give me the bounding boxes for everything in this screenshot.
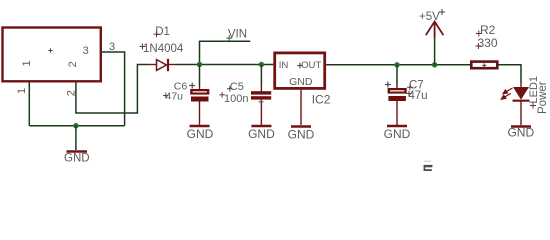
- wire pin1: [28, 81, 30, 125]
- svg-text:47u: 47u: [408, 90, 427, 102]
- junction VIN/C6: [197, 62, 202, 67]
- wire OUT to R2: [326, 64, 470, 66]
- wire to C7: [396, 65, 398, 85]
- ground symbol (connector): [67, 150, 88, 152]
- svg-text:3: 3: [83, 45, 89, 57]
- wire junction to gnd symbol: [75, 126, 77, 150]
- ground symbol (C5): [251, 125, 271, 127]
- svg-text:D1: D1: [155, 26, 170, 38]
- ground symbol (IC2): [291, 125, 311, 127]
- wire to C6: [199, 65, 201, 86]
- svg-text:GND: GND: [384, 127, 411, 141]
- wire GND bus H2: [29, 125, 124, 127]
- LED1: [513, 83, 530, 125]
- C7 polarity plus: [385, 82, 391, 88]
- svg-text:IN: IN: [279, 60, 289, 71]
- junction at GND bus: [73, 123, 78, 128]
- svg-text:3: 3: [109, 41, 115, 53]
- wire pin3 stub: [101, 52, 125, 126]
- IC2 gnd pin wire: [300, 90, 302, 125]
- wire R2 to LED: [497, 65, 521, 83]
- svg-text:Power: Power: [537, 81, 549, 114]
- junction C7: [394, 62, 399, 67]
- R2 origin cross: [482, 63, 486, 67]
- svg-text:GND: GND: [289, 76, 313, 88]
- IC2 regulator box: [275, 53, 325, 89]
- svg-text:47u: 47u: [166, 91, 184, 103]
- svg-text:IC2: IC2: [312, 92, 331, 106]
- wire +5V to junction: [434, 38, 436, 65]
- diode D1: [148, 59, 177, 71]
- svg-text:GND: GND: [507, 126, 534, 140]
- svg-text:1: 1: [16, 88, 28, 94]
- wire pin2 to diode (H1): [76, 65, 148, 114]
- svg-text:GND: GND: [187, 127, 214, 141]
- svg-text:2: 2: [67, 61, 79, 67]
- wire VIN label: [200, 41, 251, 64]
- ground symbol (C6): [190, 125, 210, 127]
- svg-text:1N4004: 1N4004: [143, 43, 184, 55]
- svg-text:OUT: OUT: [301, 60, 321, 71]
- IC2 origin cross: [297, 63, 303, 69]
- resistor R2: [471, 62, 497, 69]
- connector X1 body: [3, 28, 101, 82]
- svg-text:GND: GND: [64, 153, 90, 165]
- C5 origin cross: [258, 100, 263, 104]
- svg-text:R2: R2: [480, 23, 496, 37]
- capacitor C6 (polarized): [190, 85, 209, 125]
- main wire to IC2: [200, 64, 274, 66]
- svg-text:GND: GND: [248, 127, 275, 141]
- LED arrows: [501, 88, 512, 99]
- partial letter at bottom: [424, 165, 433, 171]
- capacitor C7 (polarized): [388, 85, 407, 125]
- ground symbol (LED): [511, 125, 531, 127]
- svg-text:VIN: VIN: [228, 29, 247, 41]
- svg-text:1: 1: [21, 60, 33, 66]
- svg-text:C5: C5: [230, 81, 244, 93]
- svg-text:330: 330: [478, 36, 498, 50]
- C6 polarity plus: [189, 83, 195, 89]
- svg-text:GND: GND: [288, 128, 315, 142]
- wire diode to junction: [177, 64, 200, 66]
- svg-text:100n: 100n: [224, 93, 248, 105]
- connector origin cross: [48, 48, 52, 52]
- capacitor C5: [251, 85, 271, 125]
- +5V supply symbol: [426, 22, 444, 39]
- junction C5: [259, 62, 264, 67]
- junction +5V: [432, 62, 437, 67]
- ground symbol (C7): [387, 125, 407, 127]
- wire to C5: [260, 65, 262, 86]
- svg-text:+5V: +5V: [419, 11, 440, 23]
